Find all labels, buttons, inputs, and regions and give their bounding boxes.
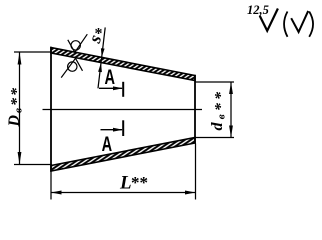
roughness note: main check mark [260, 9, 278, 31]
dimension L: left extension line [50, 172, 52, 200]
svg-text:*: * [95, 25, 103, 42]
wall thickness s*: lower arrowhead [98, 63, 102, 72]
wall thickness s*: upper arrowhead [101, 48, 105, 57]
wall thickness s*: dimension line [98, 27, 105, 88]
dimension DB: top arrowhead [18, 52, 22, 65]
dimension dv: top arrowhead [229, 82, 233, 94]
section mark A lower: arrowhead [113, 128, 123, 132]
section mark A lower: cutting plane stroke [122, 120, 124, 136]
dimension L: dimension line [51, 192, 196, 194]
dimension L: right extension line [195, 144, 197, 200]
svg-text:**: ** [131, 173, 148, 192]
dimension dv: dimension line [230, 82, 232, 138]
top wall band (hatched section) [51, 48, 195, 81]
roughness symbol on inner surface (circle-check below top band) [61, 58, 82, 77]
dimension dv: top extension line [195, 81, 234, 83]
dimension DB: bottom arrowhead [18, 152, 22, 165]
dimension dv: bottom extension line [195, 137, 234, 139]
svg-text:12,5: 12,5 [247, 3, 269, 17]
svg-text:Dв**: Dв** [6, 86, 26, 127]
right edge of cone (small end) [194, 75, 196, 144]
section mark A lower: arrow line [101, 129, 123, 131]
svg-text:A: A [102, 133, 113, 156]
dimension DB: bottom extension line [14, 164, 52, 166]
svg-text:L: L [119, 173, 132, 194]
bottom wall band (hatched section) [51, 138, 195, 172]
dimension L: left arrowhead [51, 191, 62, 195]
dimension DB: dimension line [19, 52, 21, 165]
dimension L: right arrowhead [185, 191, 196, 195]
left edge of cone (big end) [50, 47, 52, 172]
section mark A upper: arrowhead [113, 86, 123, 90]
roughness note: close paren [309, 12, 313, 37]
dimension dv: bottom arrowhead [229, 126, 233, 138]
roughness note: check mark in parens [291, 11, 308, 32]
centerline (cone axis) [43, 109, 203, 111]
roughness symbol on outer surface (circle-check above top band) [68, 34, 88, 52]
roughness note: open paren [284, 12, 287, 37]
section mark A upper: arrow line [99, 87, 122, 89]
section mark A upper: cutting plane stroke [122, 82, 124, 97]
svg-text:A: A [105, 66, 116, 89]
dimension DB: top extension line [14, 51, 51, 53]
